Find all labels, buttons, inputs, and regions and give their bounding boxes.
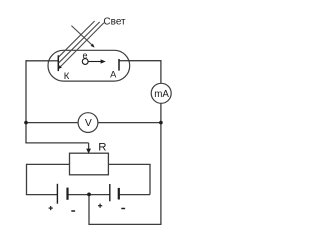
wire battery 1 to junction — [68, 194, 110, 196]
wire rheostat left terminal — [27, 163, 70, 165]
svg-text:R: R — [98, 142, 106, 154]
node junction battery mid tap — [87, 193, 91, 197]
light ray 3 — [61, 23, 104, 67]
node junction left of V — [24, 121, 28, 125]
wire left vertical — [25, 60, 27, 143]
wire lower-left vertical — [26, 164, 28, 195]
wire cathode stub inside tube — [47, 60, 58, 62]
electron arrow — [88, 61, 101, 63]
battery 1 positive plate — [56, 184, 58, 204]
rheostat wiper arrowhead — [86, 149, 91, 154]
wire voltmeter row — [26, 122, 161, 124]
battery 1 minus sign — [71, 210, 75, 212]
wire rheostat right terminal — [108, 163, 150, 165]
battery 2 minus sign — [121, 208, 125, 210]
wavefront arrowhead — [91, 44, 95, 48]
milliammeter mA — [151, 83, 171, 103]
wire bottom return — [89, 223, 162, 225]
voltmeter V — [78, 113, 98, 133]
rheostat R body — [70, 153, 109, 175]
battery 2 plus sign — [98, 204, 102, 208]
svg-text:К: К — [64, 71, 70, 82]
wire battery mid tap vertical — [88, 194, 90, 225]
battery 1 negative plate — [66, 188, 68, 200]
svg-text:V: V — [85, 118, 92, 129]
wire right riser of rheostat — [149, 164, 151, 194]
wire right vertical — [160, 60, 162, 224]
svg-text:e: e — [82, 50, 87, 60]
wire wiper feed horizontal — [25, 142, 88, 144]
svg-text:mA: mA — [154, 89, 169, 100]
wire anode stub inside tube — [119, 60, 130, 62]
wire anode to right vertical — [119, 60, 161, 62]
battery 1 plus sign — [49, 206, 53, 210]
battery 2 negative plate — [118, 188, 120, 200]
wire cathode to left vertical — [26, 60, 58, 62]
electron symbol circle — [82, 59, 88, 65]
phototube envelope — [48, 50, 130, 81]
light ray 1 — [59, 21, 95, 57]
wire battery 2 to right riser — [119, 194, 150, 196]
cathode K plate — [57, 55, 59, 71]
ray 3 arrowhead — [58, 65, 62, 69]
svg-text:А: А — [110, 69, 117, 79]
battery 2 positive plate — [109, 184, 111, 201]
wire wiper drop — [88, 143, 90, 150]
node junction right of V — [159, 121, 163, 125]
anode A plate — [118, 59, 120, 71]
light ray 2 — [59, 22, 100, 63]
light wavefront arrow line — [71, 26, 92, 45]
svg-text:Свет: Свет — [103, 17, 126, 28]
wire battery row left — [26, 194, 58, 196]
